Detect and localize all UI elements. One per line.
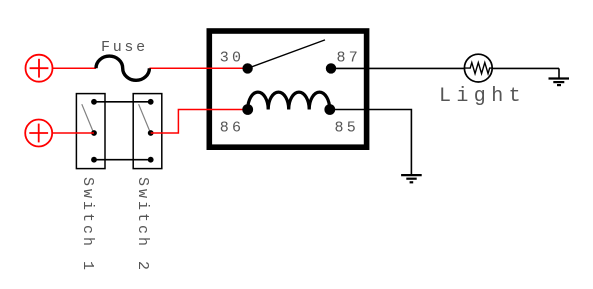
svg-text:85: 85 xyxy=(335,119,359,136)
svg-text:Fuse: Fuse xyxy=(101,39,148,56)
svg-text:Switch 1: Switch 1 xyxy=(79,177,96,273)
svg-text:Light: Light xyxy=(439,85,526,108)
svg-text:Switch 2: Switch 2 xyxy=(134,177,151,273)
svg-text:87: 87 xyxy=(337,50,361,67)
svg-text:30: 30 xyxy=(220,50,244,67)
svg-text:86: 86 xyxy=(220,119,244,136)
